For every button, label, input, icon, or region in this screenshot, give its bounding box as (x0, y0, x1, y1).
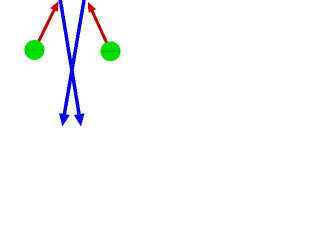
ball right (101, 41, 121, 61)
red arrow V1 (left ball velocity) (35, 1, 59, 50)
ball left (25, 40, 45, 60)
blue arrow B1 (top-left to bottom-right) (60, 0, 85, 127)
background (0, 0, 146, 129)
physics diagram: two balls with velocity (red) and acceleration (blue) vectors (0, 0, 146, 129)
blue arrow B2 (top-right to bottom-left) (59, 0, 84, 127)
red arrow V2 (right ball velocity) (88, 2, 111, 51)
